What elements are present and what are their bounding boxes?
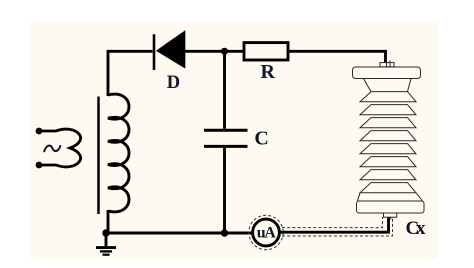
wire: resistor to insulator top (288, 51, 386, 64)
resistor R (244, 43, 288, 60)
insulator bottom connector (384, 213, 397, 220)
ground (105, 233, 108, 247)
node: capacitor/rail junction (221, 229, 228, 236)
insulator bottom flange (357, 201, 425, 213)
wire: meter to insulator bottom (279, 217, 389, 233)
node: junction top (221, 48, 228, 55)
meter dashed guard circle (249, 215, 283, 249)
diode D cathode bar (153, 34, 156, 70)
insulator sheds (360, 92, 416, 193)
capacitor C (204, 129, 248, 132)
wire: diode to resistor (184, 50, 244, 53)
AC source terminal top (36, 128, 43, 135)
insulator top flange (353, 67, 421, 79)
svg-text:uA: uA (257, 224, 276, 241)
shielded cable dashed envelope top (282, 217, 383, 228)
insulator flare above bottom flange (358, 193, 423, 201)
AC source terminal bottom (36, 162, 43, 169)
svg-text:C: C (254, 128, 268, 150)
svg-text:R: R (260, 61, 275, 83)
node: ground junction (102, 229, 109, 236)
primary winding (41, 129, 81, 167)
bottom rail wire (106, 232, 253, 235)
secondary winding (108, 94, 129, 212)
wire: capacitor to bottom rail (223, 148, 226, 233)
insulator neck below flange (364, 79, 412, 92)
svg-text:Cx: Cx (406, 218, 427, 239)
diode D triangle (156, 30, 185, 68)
meter uA circle (253, 219, 280, 246)
tilde symbol (44, 146, 60, 152)
wire: junction down to capacitor (223, 51, 226, 129)
wire: secondary bottom to rail (107, 210, 110, 233)
wire: secondary top to diode (108, 51, 153, 96)
background panel (30, 22, 437, 259)
transformer core (97, 97, 100, 215)
insulator Cx top connector (380, 60, 394, 66)
shielded cable dashed envelope bottom (282, 217, 393, 236)
svg-text:D: D (167, 73, 180, 93)
